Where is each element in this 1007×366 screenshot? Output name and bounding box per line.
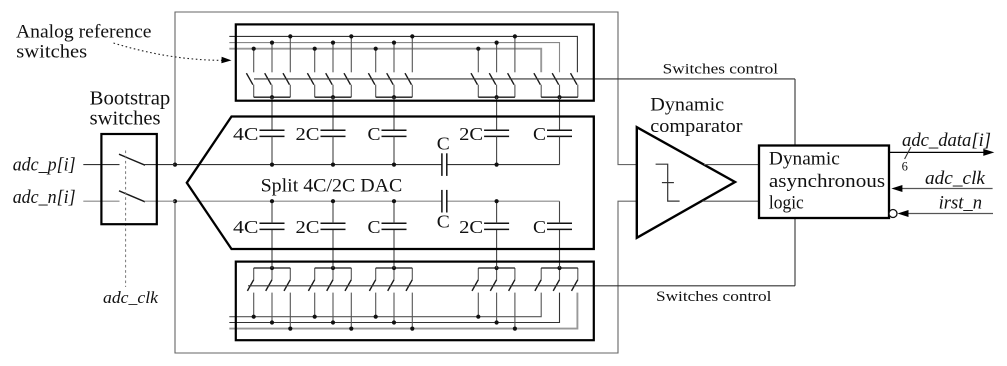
svg-text:C: C [533, 217, 546, 237]
svg-text:Switches control: Switches control [656, 289, 771, 305]
svg-text:C: C [368, 217, 381, 237]
svg-text:irst_n: irst_n [939, 194, 982, 214]
svg-text:C: C [368, 124, 381, 144]
svg-text:adc_p[i]: adc_p[i] [13, 155, 76, 175]
svg-text:2C: 2C [459, 217, 483, 237]
svg-text:6: 6 [902, 159, 908, 173]
svg-text:logic: logic [769, 194, 804, 214]
svg-text:Split 4C/2C DAC: Split 4C/2C DAC [261, 175, 403, 196]
svg-text:adc_clk: adc_clk [925, 169, 986, 189]
svg-text:Dynamic: Dynamic [650, 95, 724, 115]
svg-text:comparator: comparator [650, 117, 742, 137]
svg-text:2C: 2C [296, 217, 320, 237]
svg-text:Dynamic: Dynamic [769, 149, 840, 169]
svg-text:2C: 2C [296, 124, 320, 144]
svg-text:Bootstrap: Bootstrap [90, 89, 171, 110]
svg-text:Analog reference: Analog reference [16, 21, 152, 42]
svg-text:adc_data[i]: adc_data[i] [902, 131, 991, 151]
svg-text:4C: 4C [233, 124, 259, 144]
svg-text:2C: 2C [459, 124, 483, 144]
svg-text:Switches control: Switches control [663, 61, 778, 77]
svg-text:adc_clk: adc_clk [103, 288, 159, 307]
svg-text:C: C [437, 134, 450, 154]
svg-text:4C: 4C [233, 217, 259, 237]
svg-text:switches: switches [90, 108, 161, 129]
svg-text:C: C [437, 212, 450, 232]
svg-text:switches: switches [16, 42, 87, 63]
svg-text:adc_n[i]: adc_n[i] [13, 188, 76, 208]
svg-text:C: C [533, 124, 546, 144]
svg-text:asynchronous: asynchronous [769, 172, 885, 192]
